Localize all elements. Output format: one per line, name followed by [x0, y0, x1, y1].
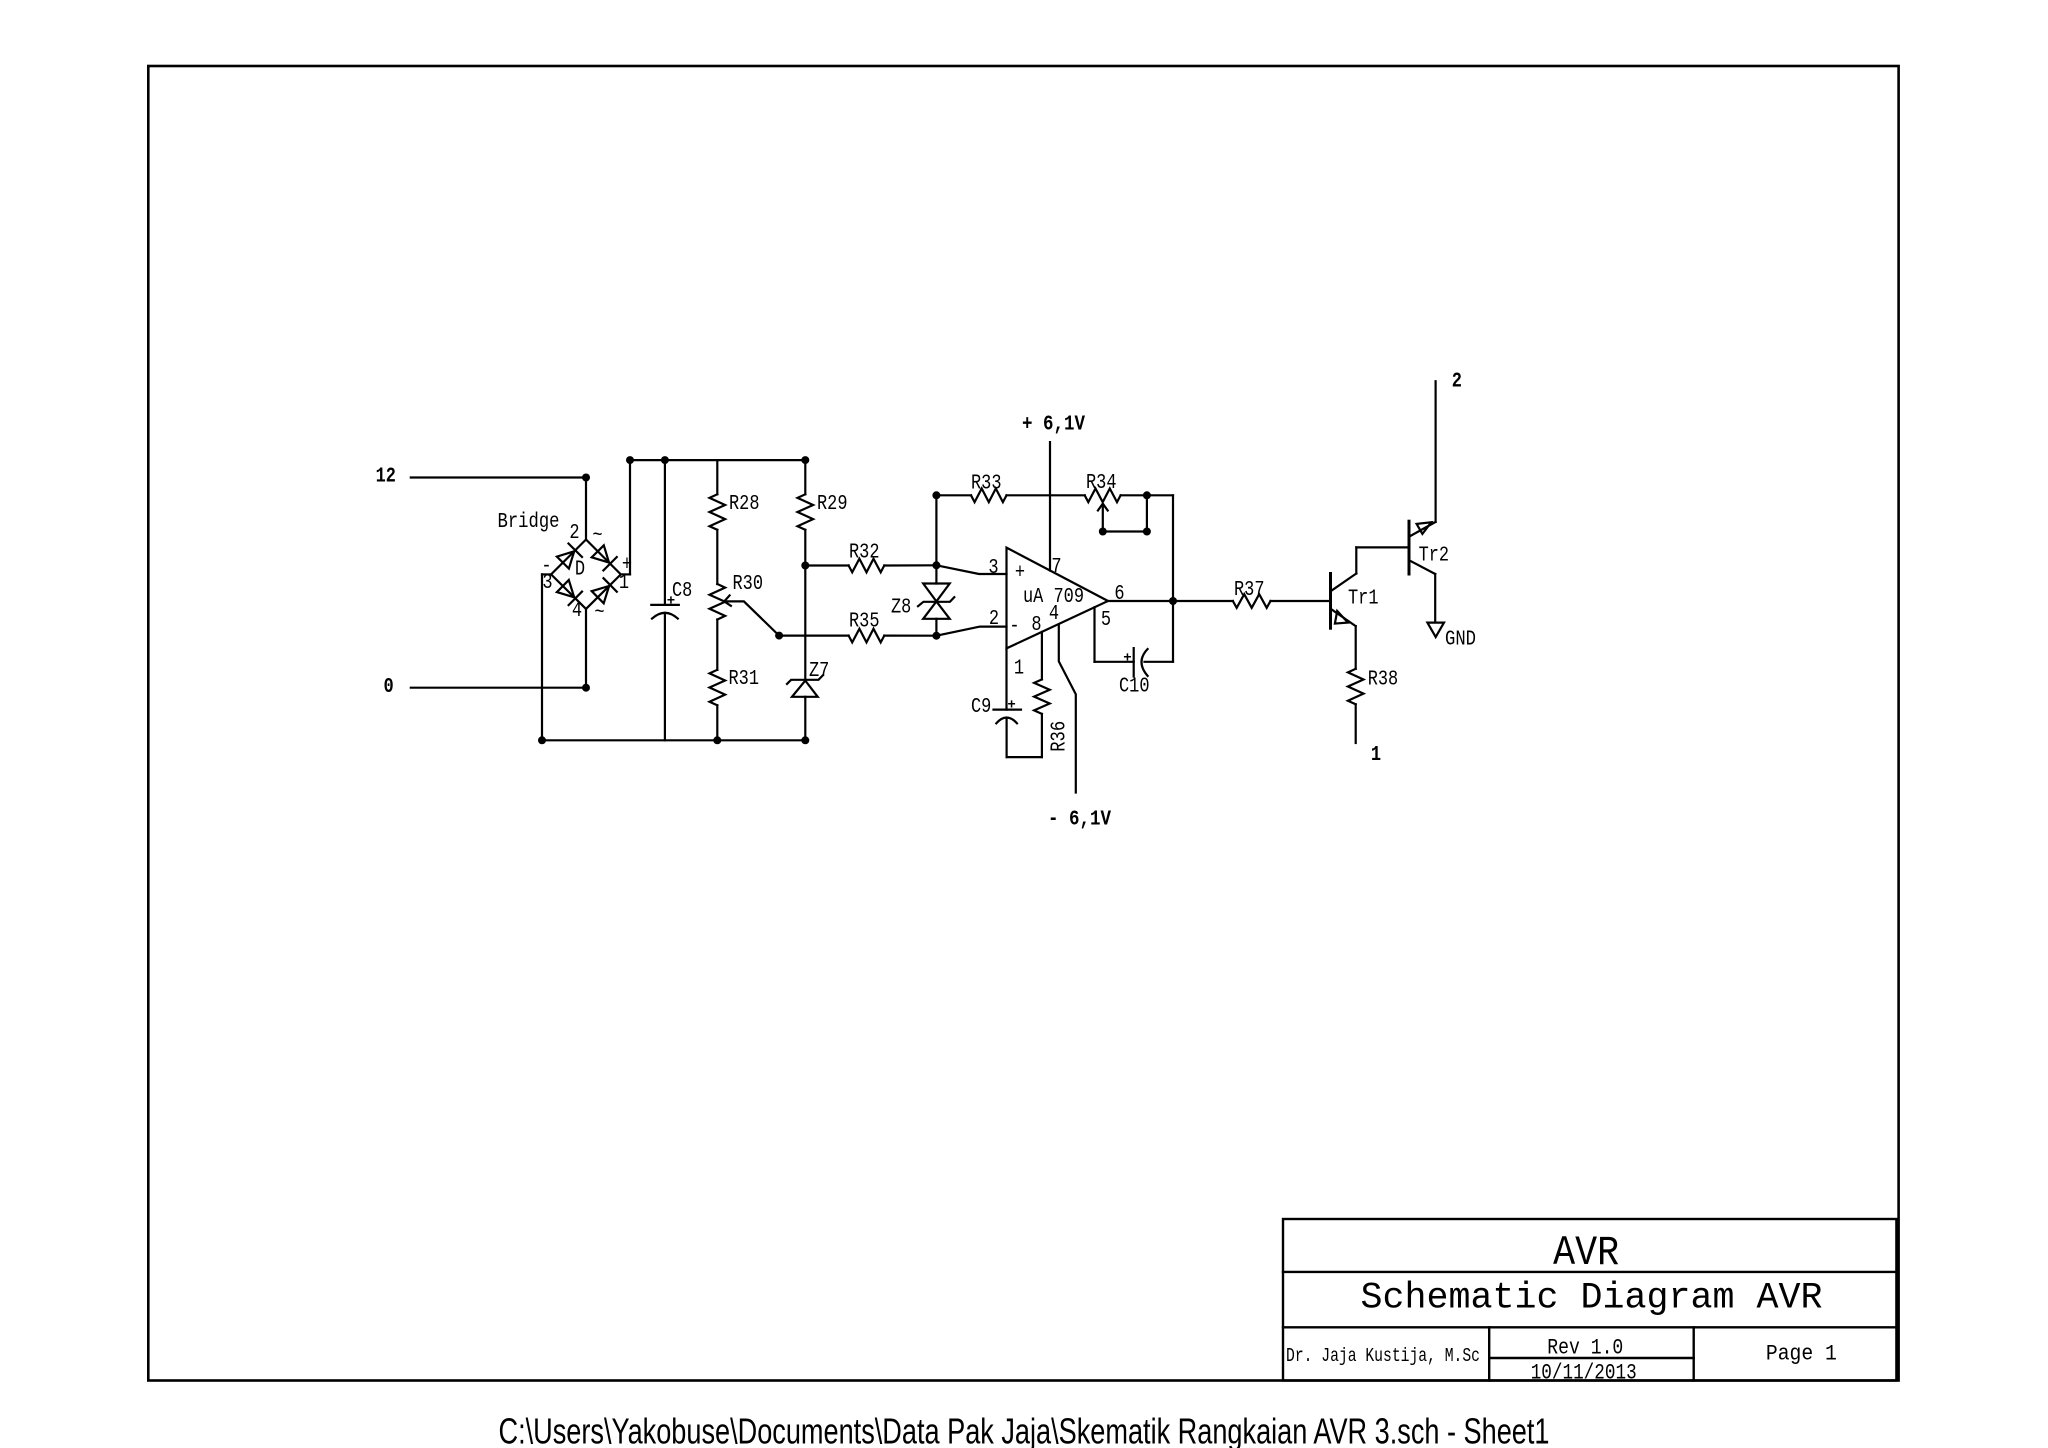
svg-text:1: 1 — [619, 572, 629, 595]
svg-text:R31: R31 — [729, 668, 760, 691]
svg-text:4: 4 — [572, 600, 582, 623]
svg-text:Tr1: Tr1 — [1348, 588, 1379, 611]
svg-text:10/11/2013: 10/11/2013 — [1531, 1361, 1637, 1386]
svg-text:R30: R30 — [733, 573, 764, 596]
svg-text:2: 2 — [989, 608, 999, 631]
svg-text:- 6,1V: - 6,1V — [1048, 808, 1111, 831]
svg-text:R38: R38 — [1368, 669, 1399, 692]
svg-text:1: 1 — [1371, 744, 1381, 767]
svg-text:R35: R35 — [849, 611, 880, 634]
svg-text:4: 4 — [1049, 603, 1059, 626]
svg-text:Rev 1.0: Rev 1.0 — [1547, 1336, 1623, 1361]
svg-text:R33: R33 — [971, 473, 1002, 496]
svg-text:R29: R29 — [817, 493, 848, 516]
svg-text:R34: R34 — [1086, 472, 1117, 495]
svg-text:8: 8 — [1031, 614, 1041, 637]
svg-text:R28: R28 — [729, 493, 760, 516]
svg-text:~: ~ — [592, 525, 602, 548]
svg-text:7: 7 — [1051, 556, 1061, 579]
svg-text:Z8: Z8 — [891, 597, 911, 620]
svg-text:R37: R37 — [1234, 579, 1265, 602]
svg-text:Page 1: Page 1 — [1766, 1342, 1837, 1367]
svg-text:C9: C9 — [971, 696, 991, 719]
svg-text:3: 3 — [542, 572, 552, 595]
svg-text:12: 12 — [376, 465, 396, 488]
svg-text:5: 5 — [1101, 609, 1111, 632]
svg-text:+: + — [667, 593, 675, 609]
svg-text:Tr2: Tr2 — [1419, 545, 1450, 568]
svg-text:1: 1 — [1014, 658, 1024, 681]
svg-text:-: - — [1009, 616, 1019, 639]
svg-text:GND: GND — [1445, 629, 1476, 652]
svg-text:~: ~ — [594, 602, 604, 625]
svg-text:+: + — [1123, 651, 1131, 667]
svg-text:Dr. Jaja Kustija, M.Sc: Dr. Jaja Kustija, M.Sc — [1286, 1345, 1480, 1367]
svg-text:D: D — [575, 559, 585, 582]
svg-text:3: 3 — [988, 557, 998, 580]
svg-text:R36: R36 — [1048, 721, 1071, 752]
svg-text:+ 6,1V: + 6,1V — [1022, 414, 1085, 437]
svg-text:2: 2 — [569, 522, 579, 545]
svg-text:2: 2 — [1452, 370, 1462, 393]
svg-text:C10: C10 — [1119, 676, 1150, 699]
svg-text:0: 0 — [384, 676, 394, 699]
svg-text:C:\Users\Yakobuse\Documents\Da: C:\Users\Yakobuse\Documents\Data Pak Jaj… — [499, 1411, 1550, 1448]
svg-text:R32: R32 — [849, 542, 880, 565]
svg-text:AVR: AVR — [1553, 1229, 1619, 1277]
svg-text:+: + — [1015, 562, 1025, 585]
svg-text:Bridge: Bridge — [498, 511, 560, 534]
svg-text:Z7: Z7 — [809, 660, 829, 683]
svg-text:Schematic Diagram AVR: Schematic Diagram AVR — [1361, 1278, 1823, 1320]
svg-text:6: 6 — [1114, 583, 1124, 606]
svg-text:+: + — [1007, 697, 1015, 713]
